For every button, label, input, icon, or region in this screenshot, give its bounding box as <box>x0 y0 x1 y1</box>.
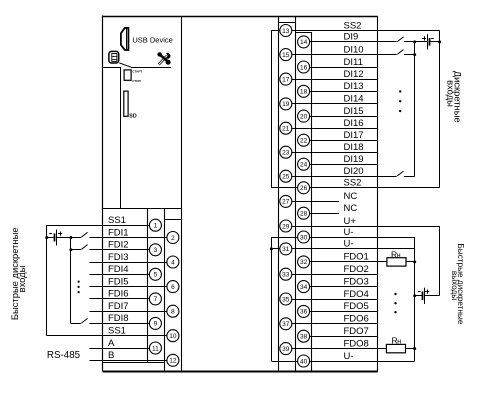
terminal 24 <box>298 158 310 170</box>
svg-text:SS1: SS1 <box>108 215 126 226</box>
wire SS2 terminal 13 <box>292 30 440 32</box>
wire FDI4 <box>90 274 150 276</box>
wire FDO1 to bus <box>406 261 415 263</box>
terminal 26 <box>298 182 310 194</box>
svg-text:30: 30 <box>300 234 308 241</box>
terminal 9 <box>149 317 161 329</box>
terminal 2 <box>167 232 179 244</box>
terminal 32 <box>298 256 310 268</box>
wire FDO7 <box>310 336 378 338</box>
svg-text:25: 25 <box>282 174 290 181</box>
wire FDO3 <box>310 286 378 288</box>
svg-text:18: 18 <box>300 89 308 96</box>
resistor Rn load FDO1 <box>387 258 406 266</box>
wire FDO8 <box>292 348 387 350</box>
svg-text:11: 11 <box>152 345 159 352</box>
svg-text:8: 8 <box>171 309 175 316</box>
left terminal block frame <box>103 208 182 210</box>
terminal 40 <box>298 355 310 367</box>
wire DI19 <box>310 164 378 166</box>
module front panel outline top edge <box>103 16 378 18</box>
svg-text:10: 10 <box>169 333 177 340</box>
svg-text:RS-485: RS-485 <box>47 350 81 361</box>
terminal 39 <box>280 343 292 355</box>
svg-text:FDI4: FDI4 <box>108 264 129 275</box>
svg-text:SS2: SS2 <box>344 178 362 189</box>
svg-text:26: 26 <box>300 185 308 192</box>
wire FDI5 <box>90 286 167 288</box>
terminal 36 <box>298 305 310 317</box>
terminal 16 <box>298 61 310 73</box>
module inner divider <box>181 16 183 371</box>
wire FDO2 <box>292 274 378 276</box>
switch DI9 <box>397 37 403 42</box>
svg-text:23: 23 <box>282 150 290 157</box>
terminal 13 <box>280 25 292 37</box>
svg-text:СТОП: СТОП <box>132 79 141 83</box>
junction FDO8 <box>413 347 416 350</box>
wire DI15 <box>310 116 378 118</box>
svg-text:FDO5: FDO5 <box>344 301 369 312</box>
svg-text:U-: U- <box>344 227 354 238</box>
switch DI20 <box>397 171 403 176</box>
wire FDO4 <box>292 299 378 301</box>
wire SS1 terminal 10 <box>47 335 167 337</box>
wire FDI8 <box>71 323 81 325</box>
svg-text:12: 12 <box>169 358 177 365</box>
svg-text:USB Device: USB Device <box>132 35 172 44</box>
svg-text:3: 3 <box>154 247 158 254</box>
svg-text:29: 29 <box>282 223 290 230</box>
wire FDI7 <box>90 311 167 313</box>
wire DI17 <box>310 140 378 142</box>
terminal 18 <box>298 85 310 97</box>
terminal 27 <box>280 195 292 207</box>
junction FDO1 <box>413 260 416 263</box>
svg-text:DI17: DI17 <box>344 130 364 141</box>
leader wire from switch to service icon <box>119 63 131 67</box>
terminal 11 <box>149 342 161 354</box>
svg-text:21: 21 <box>282 126 290 133</box>
switch FDI2 <box>81 245 87 250</box>
wire U- terminal 31 <box>292 248 415 250</box>
svg-text:DI16: DI16 <box>344 118 364 129</box>
U- common bus <box>414 237 416 361</box>
svg-text:DI18: DI18 <box>344 142 364 153</box>
svg-text:39: 39 <box>282 346 290 353</box>
svg-text:20: 20 <box>300 113 308 120</box>
DI common bus <box>414 42 416 176</box>
junction FDI2 <box>69 248 72 251</box>
svg-text:24: 24 <box>300 162 308 169</box>
svg-text:FDI5: FDI5 <box>108 276 129 287</box>
svg-text:B: B <box>108 350 114 361</box>
ellipsis dots left inputs <box>78 281 80 283</box>
wire U- terminal 30 <box>310 237 415 239</box>
svg-text:5: 5 <box>154 272 158 279</box>
svg-text:U+: U+ <box>344 216 357 227</box>
junction DI9 bus <box>413 40 416 43</box>
terminal 31 <box>280 243 292 255</box>
terminal 25 <box>280 170 292 182</box>
svg-text:DI13: DI13 <box>344 81 364 92</box>
svg-text:33: 33 <box>282 272 290 279</box>
svg-text:34: 34 <box>300 284 308 291</box>
terminal 10 <box>167 330 179 342</box>
wire DI9 <box>310 41 397 43</box>
svg-text:DI19: DI19 <box>344 154 364 165</box>
terminal 30 <box>298 231 310 243</box>
wire FDI1 with battery GB1 <box>47 237 54 239</box>
svg-text:DI10: DI10 <box>344 44 364 55</box>
wire NC terminal 27 <box>292 201 339 203</box>
service tools icon <box>159 56 168 65</box>
wire NC terminal 28 <box>310 213 339 215</box>
svg-text:FDO8: FDO8 <box>344 338 369 349</box>
svg-text:FDI1: FDI1 <box>108 227 129 238</box>
svg-text:SD: SD <box>129 114 137 120</box>
svg-text:SS1: SS1 <box>108 326 126 337</box>
battery GB3 <box>415 295 422 297</box>
svg-text:NC: NC <box>344 191 358 202</box>
wire DI13 <box>310 91 378 93</box>
terminal 6 <box>167 281 179 293</box>
terminal 35 <box>280 293 292 305</box>
junction battery <box>45 236 48 239</box>
svg-text:7: 7 <box>154 296 158 303</box>
SS2 return line <box>439 31 441 188</box>
SD card slot <box>124 91 128 116</box>
svg-text:13: 13 <box>282 28 290 35</box>
SS1 return bus <box>46 225 48 336</box>
wire DI16 <box>292 128 378 130</box>
svg-text:40: 40 <box>300 358 308 365</box>
terminal 20 <box>298 110 310 122</box>
svg-text:4: 4 <box>171 259 175 266</box>
terminal 8 <box>167 305 179 317</box>
junction battery bus <box>413 294 416 297</box>
svg-text:FDI8: FDI8 <box>108 313 129 324</box>
USB connector J1 <box>121 28 128 50</box>
svg-text:A: A <box>108 338 115 349</box>
service switch SW1 <box>109 51 119 63</box>
svg-text:СТАРТ: СТАРТ <box>132 70 142 74</box>
svg-text:выходы: выходы <box>450 271 459 300</box>
svg-text:FDO4: FDO4 <box>344 289 369 300</box>
module right edge <box>377 16 379 371</box>
svg-text:FDI3: FDI3 <box>108 252 129 263</box>
svg-text:31: 31 <box>282 246 290 253</box>
junction DI9 supply <box>438 40 441 43</box>
svg-text:32: 32 <box>300 259 308 266</box>
resistor Rn load FDO8 <box>386 344 405 352</box>
terminal 23 <box>280 146 292 158</box>
wire FDI6 <box>90 298 150 300</box>
svg-text:DI15: DI15 <box>344 106 364 117</box>
junction FDI1 <box>69 236 72 239</box>
terminal 33 <box>280 268 292 280</box>
terminal 37 <box>280 318 292 330</box>
terminal 7 <box>149 293 161 305</box>
wire SS1 terminal 1 <box>47 225 150 227</box>
svg-text:9: 9 <box>154 321 158 328</box>
svg-text:DI20: DI20 <box>344 166 364 177</box>
terminal 29 <box>280 220 292 232</box>
right terminal block frame <box>278 16 280 371</box>
wire FDO8 to bus <box>406 348 415 350</box>
terminal 28 <box>298 207 310 219</box>
start/stop button SB1 <box>124 70 131 80</box>
svg-text:FDO2: FDO2 <box>344 264 369 275</box>
svg-text:1: 1 <box>154 223 158 230</box>
svg-text:27: 27 <box>282 199 290 206</box>
svg-text:36: 36 <box>300 309 308 316</box>
U+ supply line <box>439 226 441 296</box>
terminal 34 <box>298 281 310 293</box>
terminal 3 <box>149 244 161 256</box>
svg-text:FDO3: FDO3 <box>344 276 369 287</box>
svg-text:22: 22 <box>300 138 308 145</box>
svg-text:28: 28 <box>300 211 308 218</box>
svg-text:н: н <box>397 253 401 260</box>
terminal 22 <box>298 134 310 146</box>
terminal 4 <box>167 256 179 268</box>
FDI common bus <box>70 237 72 323</box>
wire SS2 terminal 26 <box>310 187 440 189</box>
svg-text:6: 6 <box>171 284 175 291</box>
wire DI18 <box>292 152 378 154</box>
wire FDO6 <box>292 323 378 325</box>
switch DI10 <box>397 50 403 55</box>
svg-text:FDI2: FDI2 <box>108 240 129 251</box>
wire DI12 <box>292 79 378 81</box>
terminal 15 <box>280 49 292 61</box>
svg-text:17: 17 <box>282 76 290 83</box>
panel corner line <box>103 67 121 69</box>
module left edge <box>102 15 104 371</box>
wire U+ <box>292 226 440 228</box>
svg-text:2: 2 <box>171 235 175 242</box>
terminal 12 <box>167 354 179 366</box>
svg-text:37: 37 <box>282 321 290 328</box>
svg-text:SS2: SS2 <box>344 20 362 31</box>
U- internal link wire <box>271 237 297 239</box>
svg-text:FDI7: FDI7 <box>108 301 129 312</box>
svg-text:входы: входы <box>445 80 456 107</box>
svg-text:FDO6: FDO6 <box>344 314 369 325</box>
svg-text:19: 19 <box>282 101 290 108</box>
wire FDI2 <box>71 249 81 251</box>
wire DI11 <box>310 67 378 69</box>
terminal 5 <box>149 268 161 280</box>
battery GB2 <box>427 34 429 49</box>
terminal 1 <box>149 219 161 231</box>
svg-text:15: 15 <box>282 52 290 59</box>
svg-text:35: 35 <box>282 296 290 303</box>
svg-text:38: 38 <box>300 334 308 341</box>
terminal 19 <box>280 98 292 110</box>
terminal 38 <box>298 330 310 342</box>
terminal 14 <box>298 36 310 48</box>
junction U- link <box>270 247 273 250</box>
svg-text:16: 16 <box>300 64 308 71</box>
svg-text:14: 14 <box>300 39 308 46</box>
wire FDO5 <box>310 311 378 313</box>
svg-text:входы: входы <box>16 265 27 292</box>
svg-text:FDO7: FDO7 <box>344 326 369 337</box>
terminal 17 <box>280 73 292 85</box>
wire FDI3 <box>90 262 167 264</box>
ellipsis dots discrete outputs <box>394 293 396 295</box>
ellipsis dots discrete inputs <box>399 90 401 92</box>
SS2 internal link wire <box>271 30 280 32</box>
wire DI14 <box>292 103 378 105</box>
wire FDO1 <box>310 261 387 263</box>
svg-text:DI12: DI12 <box>344 69 364 80</box>
terminal 21 <box>280 122 292 134</box>
wire DI10 <box>292 54 397 56</box>
switch FDI8 <box>81 318 87 323</box>
wire A <box>90 348 150 350</box>
svg-text:DI11: DI11 <box>344 57 363 68</box>
svg-text:NC: NC <box>344 203 358 214</box>
wire B <box>90 360 167 362</box>
wire DI20 <box>292 176 397 178</box>
svg-text:U-: U- <box>344 351 354 362</box>
svg-text:н: н <box>397 339 401 346</box>
junction DI10 bus <box>413 53 416 56</box>
switch FDI1 <box>81 232 87 237</box>
wire U- terminal 40 <box>310 361 415 363</box>
module bottom edge <box>103 371 378 373</box>
